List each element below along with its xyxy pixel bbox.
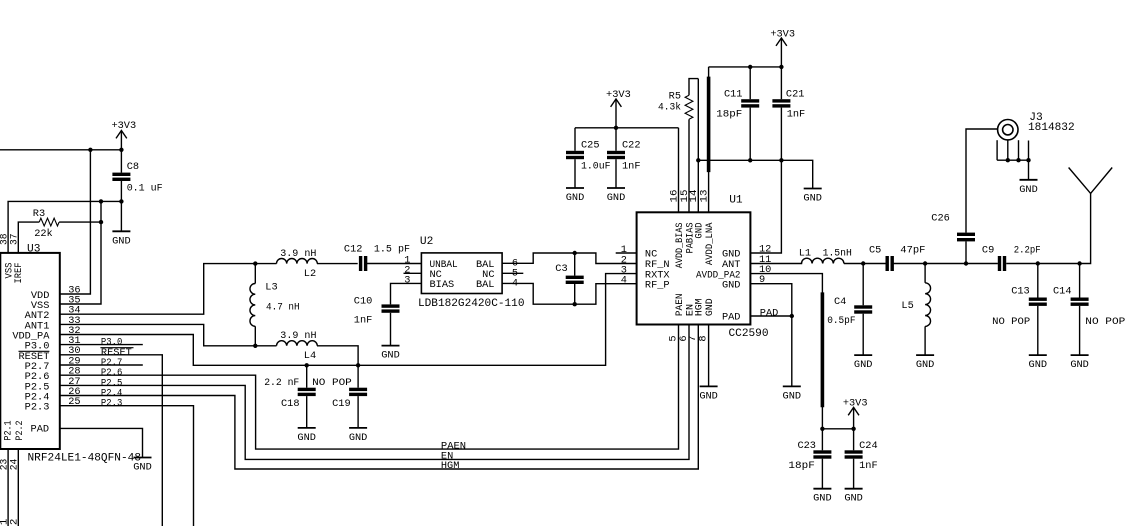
wire U3 pin 36 VDD up to +3V3 rail (60, 150, 91, 294)
ground below J3 (1019, 180, 1038, 196)
svg-text:LDB182G2420C-110: LDB182G2420C-110 (418, 298, 525, 310)
svg-text:AVDD_LNA: AVDD_LNA (704, 222, 716, 265)
power +3V3 near C11/C21 (770, 28, 795, 67)
capacitor C23 18pF (788, 429, 831, 489)
svg-text:C12: C12 (344, 244, 363, 256)
svg-text:C11: C11 (724, 89, 743, 101)
svg-text:PAD: PAD (760, 307, 779, 319)
inductor L3 4.7nH (250, 264, 300, 346)
svg-text:C23: C23 (797, 440, 816, 452)
node P2.2 (cut off) (9, 519, 21, 526)
wire U1 pin 15 PABIAS up to R5 (688, 119, 690, 212)
ground below C18 (297, 428, 316, 444)
capacitor C22 1nF (607, 128, 641, 188)
svg-text:GND: GND (803, 193, 822, 205)
svg-text:2.2 nF: 2.2 nF (264, 377, 299, 389)
capacitor C26 (931, 129, 998, 264)
ground below L5 (916, 355, 935, 371)
svg-text:C14: C14 (1053, 286, 1072, 298)
node P2.7 (60, 357, 143, 369)
svg-text:3: 3 (404, 274, 410, 286)
wire U3 pins 23,24 (8, 449, 18, 526)
svg-text:1nF: 1nF (859, 460, 878, 472)
svg-text:P2.2: P2.2 (9, 519, 21, 526)
junction L2/L3/ANT2 junction (253, 261, 257, 265)
wire GND rail to ground symbol (698, 160, 812, 188)
node P3.0 (60, 337, 143, 349)
wire +3V3 rail over C25/C22 (575, 127, 679, 129)
svg-text:3.9 nH: 3.9 nH (280, 330, 316, 342)
svg-text:C18: C18 (281, 398, 300, 410)
wire U1 pin 13 AVDD_LNA up (708, 67, 710, 212)
ground below C10 (381, 346, 400, 362)
wire C5 to C9 (893, 263, 998, 265)
svg-text:18pF: 18pF (716, 108, 742, 120)
junction C3 bottom junction (573, 302, 577, 306)
ground below C23 (813, 489, 832, 505)
svg-text:C24: C24 (859, 440, 878, 452)
svg-text:1nF: 1nF (354, 315, 373, 327)
ground below C4 (854, 355, 873, 371)
svg-text:1.0uF: 1.0uF (581, 161, 611, 173)
power +3V3 near C25/C22 (606, 89, 631, 128)
capacitor C18 2.2nF (NO POP) (264, 365, 316, 428)
capacitor C19 NO POP (312, 365, 367, 428)
balun U2 LDB182G2420C-110 body (404, 236, 524, 310)
IC U3 NRF24LE1-48QFN-48 body (0, 234, 141, 471)
wire C8 to ground (120, 201, 122, 231)
svg-text:4.7 nH: 4.7 nH (266, 301, 300, 313)
svg-text:+3V3: +3V3 (606, 89, 631, 101)
svg-text:C5: C5 (869, 244, 881, 256)
svg-text:C3: C3 (555, 263, 567, 275)
svg-text:+3V3: +3V3 (770, 28, 795, 40)
node PAD net (750, 307, 791, 319)
wire U3 PAD to ground (60, 428, 143, 457)
svg-text:IREF: IREF (13, 263, 25, 284)
junction J3 shield junction 2 (1016, 158, 1020, 162)
wire U3 pin 35 VSS up to GND net (60, 201, 101, 304)
svg-text:GND: GND (349, 432, 368, 444)
svg-text:47pF: 47pF (900, 244, 925, 256)
svg-text:C13: C13 (1011, 286, 1030, 298)
wire AVDD_LNA thick segment (707, 77, 711, 173)
svg-text:RF_P: RF_P (645, 279, 670, 291)
svg-text:U2: U2 (420, 236, 433, 248)
node P2.3 (60, 398, 194, 526)
svg-text:C4: C4 (834, 296, 846, 308)
wire U1 pin 12 GND (750, 160, 781, 253)
junction C11 top junction (748, 65, 752, 69)
wire U1 pin 1 NC stub (616, 252, 637, 254)
capacitor C9 2.2pF (982, 244, 1041, 271)
junction L5 junction (923, 261, 927, 265)
junction VSS/GND junction (99, 199, 103, 203)
wire R5 top to pin 14 GND net (689, 79, 698, 96)
svg-text:3.9 nH: 3.9 nH (280, 248, 316, 260)
junction pin14/GND rail junction (696, 158, 700, 162)
capacitor C25 1.0uF (566, 128, 611, 188)
svg-text:BAL: BAL (476, 279, 495, 291)
ground below C13 (1029, 355, 1048, 371)
resistor R3 22k (33, 208, 59, 240)
wire J3 shield pins (997, 140, 1028, 180)
svg-text:GND: GND (844, 493, 863, 505)
svg-text:BIAS: BIAS (430, 279, 455, 291)
svg-text:C9: C9 (982, 244, 994, 256)
svg-text:GND: GND (854, 359, 873, 371)
inductor L2 3.9nH (277, 248, 318, 280)
svg-text:GND: GND (607, 192, 626, 204)
svg-text:L4: L4 (304, 350, 316, 362)
junction C23 junction (820, 427, 824, 431)
svg-text:C8: C8 (127, 161, 139, 173)
capacitor C24 1nF (845, 429, 878, 489)
svg-text:GND: GND (1029, 359, 1048, 371)
svg-text:NRF24LE1-48QFN-48: NRF24LE1-48QFN-48 (28, 453, 142, 465)
svg-text:U3: U3 (27, 243, 40, 255)
junction PAD/pin9 junction (790, 314, 794, 318)
svg-text:NO POP: NO POP (312, 377, 352, 389)
wire +3V3 rail over C11/C21 (709, 66, 782, 68)
junction VDD rail junction (88, 148, 92, 152)
capacitor C10 1nF (354, 295, 400, 345)
svg-text:GND: GND (783, 390, 802, 402)
svg-text:P2.3: P2.3 (101, 398, 122, 410)
svg-text:GND: GND (813, 493, 832, 505)
svg-text:+3V3: +3V3 (111, 120, 136, 132)
capacitor C13 NO POP (992, 264, 1047, 356)
svg-text:C19: C19 (332, 398, 351, 410)
svg-text:R3: R3 (33, 208, 45, 220)
svg-text:GND: GND (133, 462, 152, 474)
svg-text:L3: L3 (265, 281, 277, 293)
junction C21/pin12 junction (779, 158, 783, 162)
junction C8 bottom junction (119, 199, 123, 203)
wire U1 pin 8 GND down (708, 325, 710, 387)
wire C12 to U2 pin 1 (366, 263, 421, 265)
svg-text:GND: GND (381, 350, 400, 362)
capacitor C5 47pF (869, 244, 925, 271)
node RESET (60, 347, 163, 526)
node P2.6 / PAEN net (60, 325, 679, 453)
connector J3 1814832 (998, 112, 1075, 140)
ground below C14 (1070, 355, 1089, 371)
wire U1 pin 11 ANT to L1 (750, 263, 802, 265)
svg-text:C22: C22 (622, 139, 641, 151)
svg-text:P2.2: P2.2 (14, 421, 26, 441)
svg-text:+3V3: +3V3 (843, 398, 868, 410)
ground below C19 (349, 428, 368, 444)
svg-text:GND: GND (566, 192, 585, 204)
svg-text:GND: GND (297, 432, 316, 444)
wire U3 pin 32 VDD_PA to U1 RXTX (60, 274, 637, 366)
capacitor C21 1nF (772, 67, 805, 160)
junction J3 shield junction 1 (1006, 158, 1010, 162)
junction C4 junction (861, 261, 865, 265)
svg-text:CC2590: CC2590 (729, 328, 769, 340)
svg-text:4: 4 (621, 275, 627, 287)
ground below C8 (112, 231, 131, 247)
wire U2 pin 2 stub (404, 272, 422, 274)
wire U3 pin 38 VSS to GND rail (8, 201, 121, 253)
capacitor C8 0.1uF (112, 150, 162, 202)
wire U2 pin 6 BAL to U1 RF_N (502, 253, 636, 264)
svg-text:GND: GND (112, 235, 131, 247)
capacitor C4 0.5pF (827, 264, 872, 356)
junction L4/C19 junction (356, 363, 360, 367)
junction C3 top junction (573, 251, 577, 255)
capacitor C11 18pF (716, 67, 759, 160)
svg-text:1814832: 1814832 (1028, 122, 1075, 134)
junction C18 junction (305, 363, 309, 367)
wire U2 pin 5 NC stub (502, 272, 523, 274)
junction C24/+3V3 junction (851, 427, 855, 431)
wire U1 pin 14 GND up (697, 79, 699, 213)
wire R3 to VSS net (59, 221, 101, 223)
svg-text:1.5nH: 1.5nH (823, 248, 852, 260)
node P2.5 / EN net (60, 325, 689, 463)
node P2.4 / HGM net (60, 325, 699, 473)
inductor L1 1.5nH (799, 248, 852, 264)
ground below C22 (607, 188, 626, 204)
wire +3V3 rail left (0, 149, 121, 151)
resistor R5 4.3k (658, 91, 693, 120)
svg-text:L2: L2 (304, 268, 316, 280)
svg-text:HGM: HGM (441, 460, 460, 472)
wire U2 pin 4 BAL to U1 RF_P (502, 283, 636, 304)
svg-text:0.1 uF: 0.1 uF (127, 182, 163, 194)
inductor L5 (901, 264, 930, 356)
wire U3 pin 37 IREF to R3 (18, 222, 39, 253)
svg-text:C25: C25 (581, 139, 600, 151)
wire C9 to antenna (1006, 193, 1090, 263)
svg-text:18pF: 18pF (788, 460, 814, 472)
ground below C25 (566, 188, 585, 204)
svg-text:0.5pF: 0.5pF (827, 315, 855, 327)
inductor L4 3.9nH (255, 330, 358, 366)
svg-text:GND: GND (704, 298, 716, 316)
svg-text:GND: GND (916, 359, 935, 371)
junction C13 junction (1036, 261, 1040, 265)
capacitor C12 1.5pF (344, 244, 410, 272)
svg-text:GND: GND (1070, 359, 1089, 371)
ground below C24 (844, 489, 863, 505)
svg-text:L5: L5 (901, 300, 913, 312)
svg-text:U1: U1 (729, 194, 743, 206)
wire U3 pin 33 ANT1 to L4/L3 node (60, 324, 256, 345)
ground below PAD net (783, 386, 802, 402)
svg-text:AVDD_PA2: AVDD_PA2 (696, 269, 741, 281)
power +3V3 near C8 (111, 120, 136, 150)
capacitor C3 (555, 253, 583, 304)
svg-text:GND: GND (699, 390, 718, 402)
svg-text:C10: C10 (354, 295, 373, 307)
junction J3 shield junction 3 (1026, 158, 1030, 162)
junction C22/+3V3 junction (614, 126, 618, 130)
ground below U1 pin 8 (699, 386, 718, 402)
junction L3/L4/ANT1 junction (253, 344, 257, 348)
svg-text:22k: 22k (34, 228, 53, 240)
svg-text:1nF: 1nF (787, 108, 806, 120)
junction C26 junction (964, 261, 968, 265)
svg-text:C21: C21 (786, 89, 805, 101)
svg-text:NO POP: NO POP (992, 316, 1030, 328)
svg-text:PAD: PAD (722, 312, 741, 324)
wire +3V3 rail over C23/C24 (822, 428, 853, 430)
svg-text:PAD: PAD (31, 423, 50, 435)
ground below U3 PAD (133, 458, 152, 474)
wire L1 to C5 (844, 263, 886, 265)
wire L2 to C12 (317, 263, 358, 265)
junction C21/+3V3 top junction (779, 65, 783, 69)
junction C8 top junction (119, 148, 123, 152)
svg-text:L1: L1 (799, 248, 811, 260)
junction C14 junction (1077, 261, 1081, 265)
junction C11 bottom junction (748, 158, 752, 162)
svg-text:C26: C26 (931, 213, 950, 225)
wire U1 pin 16 AVDD_BIAS up (678, 128, 680, 213)
IC U1 CC2590 body (621, 190, 772, 342)
wire U1 pin 10 AVDD_PA2 (750, 274, 822, 429)
ground right of C21 (803, 189, 822, 205)
svg-text:1nF: 1nF (622, 161, 641, 173)
wire U3 pin 34 ANT2 to L2/L3 node (60, 264, 256, 315)
svg-text:2.2pF: 2.2pF (1014, 244, 1041, 256)
svg-text:8: 8 (697, 335, 709, 341)
antenna E1 (1069, 168, 1113, 194)
capacitor C14 NO POP (1053, 264, 1125, 356)
wire AVDD_PA2 thick segment (821, 292, 825, 407)
svg-text:4.3k: 4.3k (658, 102, 681, 114)
node P2.1 (cut off) (0, 519, 11, 526)
junction R3/VSS junction (99, 220, 103, 224)
wire U1 pin 9 GND to PAD (750, 284, 791, 387)
svg-text:P2.1: P2.1 (3, 421, 15, 441)
svg-text:GND: GND (1019, 184, 1038, 196)
wire L2 lead (255, 263, 276, 265)
svg-text:P2.3: P2.3 (25, 402, 50, 414)
svg-text:NO POP: NO POP (1085, 316, 1125, 328)
wire U2 pin 3 BIAS to C10 (391, 283, 422, 304)
power +3V3 near C23/C24 (843, 398, 868, 429)
